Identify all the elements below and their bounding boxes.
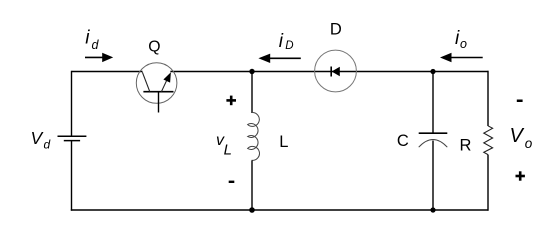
wire right rail upper — [487, 71, 489, 126]
transistor Q base bar — [143, 91, 173, 93]
wire top rail right segment — [170, 71, 488, 73]
wire left rail lower — [71, 141, 73, 211]
svg-text:V: V — [510, 125, 525, 147]
svg-text:C: C — [397, 132, 409, 150]
svg-text:V: V — [31, 128, 45, 148]
transistor Q emitter diagonal with arrow — [161, 72, 171, 92]
svg-text:R: R — [460, 137, 472, 155]
diode D cathode bar — [330, 67, 332, 77]
wire inductor bottom lead — [251, 161, 253, 211]
label plus output — [516, 171, 525, 180]
label plus inductor — [226, 96, 236, 106]
node top-left junction — [249, 69, 254, 74]
svg-text:i: i — [85, 28, 90, 49]
wire capacitor top lead — [432, 72, 434, 134]
inductor L coil — [248, 112, 260, 160]
svg-text:d: d — [44, 138, 51, 152]
transistor Q circle — [136, 63, 177, 104]
diode D triangle — [332, 67, 340, 77]
resistor R zigzag — [484, 126, 493, 155]
arrow id current — [85, 53, 113, 62]
wire capacitor bottom lead — [432, 141, 434, 211]
node top capacitor junction — [430, 69, 435, 74]
svg-text:Q: Q — [148, 39, 160, 56]
diode D circle — [315, 50, 357, 92]
arrow io current — [440, 53, 483, 62]
battery Vd — [58, 136, 87, 140]
transistor Q collector diagonal — [142, 72, 149, 91]
node bottom capacitor junction — [430, 207, 435, 212]
capacitor C curved plate — [419, 140, 448, 148]
svg-text:L: L — [224, 142, 232, 159]
svg-text:L: L — [279, 133, 288, 151]
wire left rail upper — [71, 71, 73, 136]
label minus inductor — [229, 181, 235, 183]
svg-text:d: d — [92, 38, 100, 52]
svg-text:D: D — [330, 21, 342, 39]
wire right rail lower — [487, 155, 489, 211]
svg-text:i: i — [279, 31, 284, 52]
transistor Q base lead — [158, 92, 160, 113]
arrow iD current — [258, 54, 300, 63]
wire bottom rail — [71, 209, 489, 211]
node bottom inductor junction — [249, 207, 255, 213]
label minus output — [517, 100, 523, 103]
svg-text:D: D — [285, 40, 293, 52]
svg-text:o: o — [460, 37, 467, 51]
svg-text:o: o — [525, 136, 533, 151]
wire inductor top lead — [251, 72, 253, 114]
capacitor C top plate — [419, 132, 448, 134]
wire top rail left segment — [72, 71, 143, 73]
